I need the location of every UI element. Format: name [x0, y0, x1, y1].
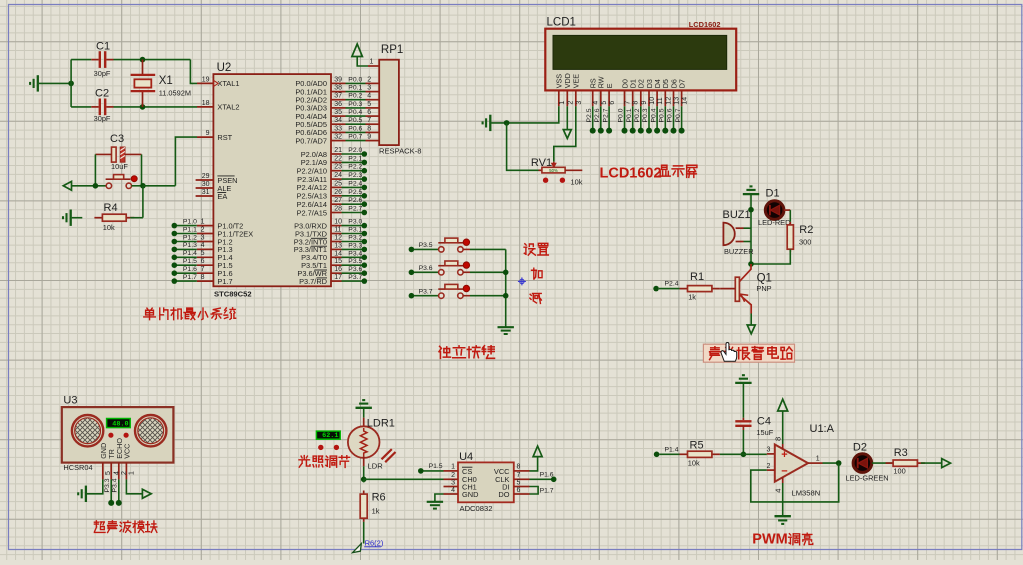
- svg-text:24: 24: [334, 172, 342, 179]
- svg-text:17: 17: [334, 274, 342, 281]
- svg-text:P1.2: P1.2: [183, 234, 197, 241]
- svg-text:P1.7: P1.7: [217, 277, 232, 286]
- svg-text:14: 14: [682, 97, 689, 105]
- svg-text:P2.4: P2.4: [665, 281, 679, 288]
- svg-text:P0.4: P0.4: [348, 109, 362, 116]
- svg-text:P0.1: P0.1: [348, 85, 362, 92]
- svg-text:LCD1602: LCD1602: [689, 20, 721, 29]
- svg-text:26: 26: [334, 189, 342, 196]
- svg-text:LDR1: LDR1: [367, 417, 395, 429]
- svg-text:P0.5: P0.5: [659, 108, 666, 122]
- svg-text:P2.7: P2.7: [602, 108, 609, 122]
- svg-text:P2.7/A15: P2.7/A15: [297, 208, 327, 217]
- svg-text:P2.0: P2.0: [348, 147, 362, 154]
- svg-text:LED-RED: LED-RED: [758, 218, 790, 227]
- svg-text:BUZZER: BUZZER: [724, 247, 754, 256]
- svg-text:P1.6: P1.6: [183, 266, 197, 273]
- svg-text:U1:A: U1:A: [810, 423, 835, 435]
- svg-text:28: 28: [334, 206, 342, 213]
- svg-text:P3.4: P3.4: [348, 250, 362, 257]
- svg-text:32: 32: [334, 134, 342, 141]
- svg-text:C2: C2: [95, 88, 109, 100]
- svg-text:39: 39: [334, 76, 342, 83]
- svg-text:37: 37: [334, 93, 342, 100]
- svg-text:HCSR04: HCSR04: [63, 463, 92, 472]
- svg-text:P3.3: P3.3: [104, 478, 111, 492]
- svg-text:6: 6: [517, 487, 521, 494]
- svg-text:1k: 1k: [688, 293, 696, 302]
- svg-text:P2.5: P2.5: [348, 189, 362, 196]
- svg-text:2: 2: [201, 226, 205, 233]
- svg-text:P3.6: P3.6: [419, 265, 433, 272]
- svg-text:5: 5: [201, 250, 205, 257]
- svg-text:6: 6: [367, 109, 371, 116]
- svg-text:1: 1: [201, 218, 205, 225]
- svg-text:1: 1: [370, 59, 374, 66]
- svg-text:PWM: PWM: [752, 532, 787, 548]
- svg-text:13: 13: [674, 97, 681, 105]
- svg-text:R4: R4: [104, 202, 118, 214]
- svg-text:25: 25: [334, 180, 342, 187]
- svg-text:P1.4: P1.4: [183, 250, 197, 257]
- svg-text:10k: 10k: [103, 223, 115, 232]
- svg-text:10uF: 10uF: [111, 162, 128, 171]
- svg-text:PNP: PNP: [756, 284, 771, 293]
- svg-text:4: 4: [774, 489, 783, 493]
- svg-text:22: 22: [334, 155, 342, 162]
- svg-text:12: 12: [334, 235, 342, 242]
- svg-text:1: 1: [129, 471, 136, 475]
- svg-text:2: 2: [567, 101, 574, 105]
- svg-text:9: 9: [206, 130, 210, 137]
- svg-text:P3.1: P3.1: [348, 227, 362, 234]
- svg-text:30: 30: [202, 181, 210, 188]
- svg-text:P3.4: P3.4: [112, 478, 119, 492]
- svg-text:P0.0: P0.0: [618, 108, 625, 122]
- svg-text:RESPACK-8: RESPACK-8: [379, 147, 421, 156]
- svg-text:Q1: Q1: [757, 273, 772, 285]
- svg-text:P3.5: P3.5: [419, 242, 433, 249]
- svg-text:3: 3: [201, 234, 205, 241]
- svg-text:P2.1: P2.1: [348, 155, 362, 162]
- svg-text:P2.6: P2.6: [594, 108, 601, 122]
- svg-text:E: E: [605, 83, 614, 88]
- svg-text:C4: C4: [757, 416, 771, 428]
- svg-text:P3.7: P3.7: [348, 274, 362, 281]
- svg-text:6: 6: [609, 101, 616, 105]
- svg-text:4: 4: [201, 242, 205, 249]
- svg-text:27: 27: [334, 197, 342, 204]
- svg-text:C3: C3: [110, 133, 124, 145]
- svg-text:GND: GND: [462, 490, 478, 499]
- svg-text:P0.7: P0.7: [675, 108, 682, 122]
- svg-text:2: 2: [451, 472, 455, 479]
- svg-text:4: 4: [114, 471, 121, 475]
- svg-text:300: 300: [799, 238, 811, 247]
- svg-text:P1.5: P1.5: [183, 258, 197, 265]
- svg-text:P3.5: P3.5: [348, 258, 362, 265]
- svg-text:LCD1602: LCD1602: [600, 166, 662, 182]
- svg-text:23: 23: [334, 164, 342, 171]
- svg-text:1: 1: [451, 464, 455, 471]
- svg-text:P2.7: P2.7: [348, 206, 362, 213]
- svg-text:P2.5: P2.5: [586, 108, 593, 122]
- svg-text:STC89C52: STC89C52: [214, 289, 252, 298]
- svg-text:LDR: LDR: [368, 461, 384, 470]
- svg-text:5: 5: [601, 101, 608, 105]
- svg-text:15uF: 15uF: [756, 428, 773, 437]
- svg-text:35: 35: [334, 109, 342, 116]
- svg-text:+: +: [781, 449, 787, 461]
- svg-text:U3: U3: [63, 395, 77, 407]
- svg-text:R6(2): R6(2): [365, 538, 384, 547]
- svg-text:R6: R6: [372, 492, 386, 504]
- svg-text:19: 19: [202, 76, 210, 83]
- svg-text:11.0592M: 11.0592M: [159, 89, 191, 98]
- svg-text:P3.0: P3.0: [348, 219, 362, 226]
- svg-text:P2.3: P2.3: [348, 172, 362, 179]
- svg-text:10k: 10k: [571, 178, 583, 187]
- svg-text:P3.7: P3.7: [419, 288, 433, 295]
- svg-text:RST: RST: [217, 133, 232, 142]
- svg-text:D2: D2: [853, 441, 867, 453]
- svg-text:P2.2: P2.2: [348, 164, 362, 171]
- svg-text:11: 11: [657, 97, 664, 104]
- svg-text:1k: 1k: [372, 506, 380, 515]
- svg-text:62.1: 62.1: [322, 432, 338, 440]
- svg-text:5: 5: [367, 101, 371, 108]
- svg-text:LED-GREEN: LED-GREEN: [846, 474, 889, 483]
- svg-text:BUZ1: BUZ1: [723, 209, 751, 221]
- svg-text:7: 7: [517, 472, 521, 479]
- svg-text:4: 4: [451, 487, 455, 494]
- svg-text:D1: D1: [766, 188, 780, 200]
- svg-text:4: 4: [593, 101, 600, 105]
- svg-text:P0.7: P0.7: [348, 134, 362, 141]
- svg-text:18: 18: [202, 100, 210, 107]
- svg-text:48.0: 48.0: [112, 420, 128, 428]
- svg-text:31: 31: [202, 189, 210, 196]
- svg-text:3: 3: [367, 85, 371, 92]
- svg-text:15: 15: [334, 258, 342, 265]
- svg-text:9: 9: [641, 101, 648, 105]
- svg-text:3: 3: [451, 479, 455, 486]
- svg-text:5: 5: [105, 471, 112, 475]
- svg-text:2: 2: [767, 463, 771, 470]
- svg-text:6: 6: [201, 258, 205, 265]
- svg-text:U2: U2: [217, 62, 232, 74]
- svg-text:21: 21: [334, 147, 342, 154]
- svg-text:VEE: VEE: [572, 74, 581, 89]
- svg-text:8: 8: [633, 101, 640, 105]
- svg-text:VCC: VCC: [122, 444, 131, 459]
- svg-text:XTAL2: XTAL2: [217, 103, 239, 112]
- svg-text:8: 8: [517, 464, 521, 471]
- svg-text:P0.7/AD7: P0.7/AD7: [295, 136, 327, 145]
- svg-text:100: 100: [893, 467, 905, 476]
- svg-text:X1: X1: [159, 75, 173, 87]
- svg-text:P2.6: P2.6: [348, 197, 362, 204]
- svg-text:P0.3: P0.3: [348, 101, 362, 108]
- svg-text:EA: EA: [217, 192, 227, 201]
- svg-text:7: 7: [625, 101, 632, 105]
- svg-text:38: 38: [334, 85, 342, 92]
- svg-text:8: 8: [774, 437, 783, 441]
- svg-text:2: 2: [121, 471, 128, 475]
- svg-text:U4: U4: [459, 451, 473, 463]
- svg-text:ADC0832: ADC0832: [460, 504, 493, 513]
- svg-text:P3.2: P3.2: [348, 235, 362, 242]
- svg-text:P0.2: P0.2: [348, 93, 362, 100]
- svg-text:R5: R5: [690, 439, 704, 451]
- svg-text:8: 8: [201, 274, 205, 281]
- svg-text:1: 1: [559, 101, 566, 105]
- svg-text:P0.5: P0.5: [348, 117, 362, 124]
- svg-text:R2: R2: [799, 224, 813, 236]
- svg-text:13: 13: [334, 242, 342, 249]
- svg-text:XTAL1: XTAL1: [217, 79, 239, 88]
- svg-text:RP1: RP1: [381, 44, 403, 56]
- svg-text:1: 1: [816, 455, 820, 462]
- svg-text:LM358N: LM358N: [792, 489, 821, 498]
- svg-text:30pF: 30pF: [94, 114, 111, 123]
- svg-text:P1.0: P1.0: [183, 218, 197, 225]
- svg-text:10: 10: [334, 219, 342, 226]
- svg-text:14: 14: [334, 250, 342, 257]
- svg-text:12: 12: [665, 97, 672, 105]
- svg-text:30pF: 30pF: [94, 69, 111, 78]
- svg-text:P1.1: P1.1: [183, 226, 197, 233]
- svg-text:D7: D7: [677, 79, 686, 88]
- svg-text:11: 11: [334, 227, 341, 234]
- svg-text:P2.4: P2.4: [348, 180, 362, 187]
- svg-text:R1: R1: [690, 271, 704, 283]
- svg-text:P0.6: P0.6: [667, 108, 674, 122]
- svg-text:RV1: RV1: [531, 157, 552, 169]
- svg-text:R3: R3: [894, 447, 908, 459]
- svg-text:P3.3: P3.3: [348, 242, 362, 249]
- svg-text:7: 7: [201, 266, 205, 273]
- svg-text:3: 3: [767, 447, 771, 454]
- svg-text:P1.5: P1.5: [429, 463, 443, 470]
- svg-text:P0.4: P0.4: [650, 108, 657, 122]
- svg-text:8: 8: [367, 125, 371, 132]
- svg-text:34: 34: [334, 117, 342, 124]
- svg-text:P0.1: P0.1: [626, 108, 633, 122]
- svg-text:4: 4: [367, 93, 371, 100]
- svg-text:7: 7: [367, 117, 371, 124]
- svg-text:P0.0: P0.0: [348, 76, 362, 83]
- svg-text:16: 16: [334, 266, 342, 273]
- svg-text:10: 10: [649, 97, 656, 105]
- svg-text:−: −: [781, 465, 787, 477]
- svg-text:5: 5: [517, 479, 521, 486]
- svg-text:P0.6: P0.6: [348, 125, 362, 132]
- svg-text:P1.7: P1.7: [183, 274, 197, 281]
- svg-text:P0.3: P0.3: [642, 108, 649, 122]
- svg-text:DO: DO: [498, 490, 509, 499]
- svg-text:2: 2: [367, 76, 371, 83]
- svg-text:P1.4: P1.4: [665, 446, 679, 453]
- svg-text:36: 36: [334, 101, 342, 108]
- svg-text:10k: 10k: [688, 458, 700, 467]
- svg-text:P1.3: P1.3: [183, 242, 197, 249]
- svg-text:P1.7: P1.7: [540, 487, 554, 494]
- svg-text:33: 33: [334, 125, 342, 132]
- svg-text:3: 3: [576, 101, 583, 105]
- svg-text:C1: C1: [96, 41, 110, 53]
- svg-text:P3.6: P3.6: [348, 266, 362, 273]
- svg-text:29: 29: [202, 173, 210, 180]
- svg-text:9: 9: [367, 134, 371, 141]
- svg-text:LCD1: LCD1: [547, 16, 576, 28]
- svg-text:P0.2: P0.2: [634, 108, 641, 122]
- svg-text:P1.6: P1.6: [540, 471, 554, 478]
